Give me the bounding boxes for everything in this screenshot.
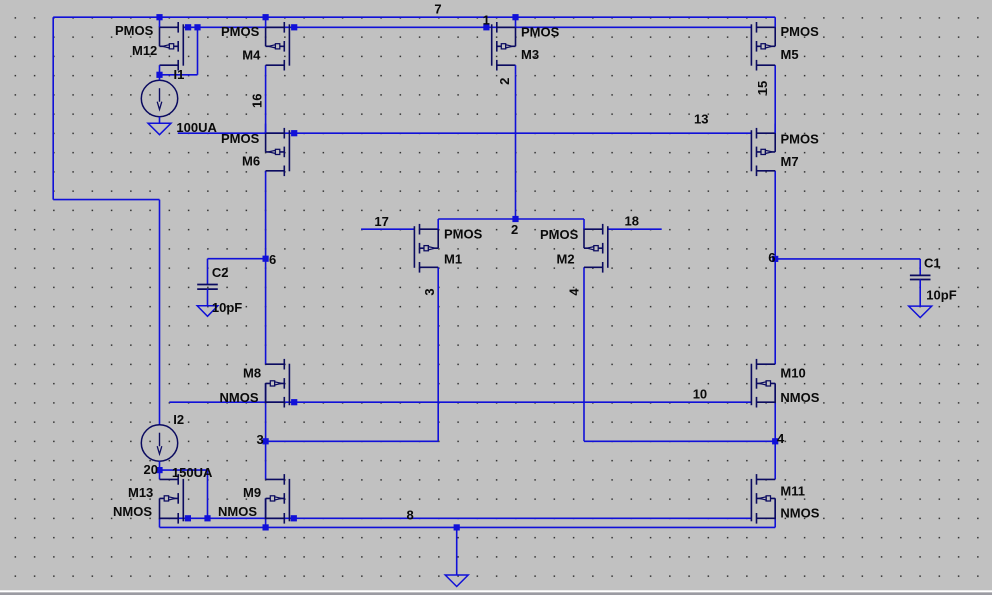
label PMOS for M3: [521, 24, 560, 39]
svg-text:17: 17: [374, 214, 388, 229]
capacitor C1: [910, 259, 931, 306]
node 2 junction: [512, 216, 518, 222]
wire left VDD loop horizontal: [53, 199, 159, 201]
wire node 16 vertical: [265, 65, 267, 133]
svg-text:100UA: 100UA: [176, 120, 217, 135]
svg-text:M11: M11: [780, 484, 805, 499]
label node 16 (rotated): [249, 93, 264, 107]
transistor M1 (PMOS input): [414, 219, 438, 273]
node 8 junction at M9: [263, 524, 269, 530]
label C2: [212, 265, 229, 280]
svg-text:M10: M10: [780, 365, 805, 380]
label PMOS for M2: [540, 227, 579, 242]
wire node 15 vertical: [774, 65, 776, 133]
label M5: [781, 47, 799, 62]
transistor M11 (NMOS): [751, 474, 775, 523]
svg-text:8: 8: [407, 507, 414, 522]
node 20 junction: [156, 467, 162, 473]
wire M13 diode gate drop: [207, 470, 209, 518]
svg-text:M9: M9: [243, 485, 261, 500]
svg-text:2: 2: [497, 78, 512, 85]
node 7 junction at M12: [156, 14, 162, 20]
svg-text:4: 4: [777, 431, 785, 446]
svg-text:I1: I1: [174, 67, 185, 82]
svg-text:15: 15: [755, 81, 770, 95]
label M3: [521, 47, 539, 62]
svg-text:6: 6: [768, 250, 775, 265]
wire M9 source stub: [265, 498, 267, 527]
label M9: [243, 485, 261, 500]
label node 6 right: [768, 250, 775, 265]
svg-text:PMOS: PMOS: [115, 23, 154, 38]
transistor M13 (NMOS diode-connected): [160, 474, 184, 523]
wire I2 feed vertical: [159, 200, 161, 425]
node 1 junction at M3 gate: [483, 24, 489, 30]
svg-text:PMOS: PMOS: [781, 24, 820, 39]
svg-text:PMOS: PMOS: [540, 227, 579, 242]
transistor M3 (PMOS): [492, 17, 516, 75]
transistor M4 (PMOS): [266, 17, 290, 70]
node 1 junction at M12 diode: [194, 24, 200, 30]
svg-text:150UA: 150UA: [172, 465, 213, 480]
label 10pF for C1: [926, 287, 956, 302]
label node 18: [625, 214, 639, 229]
node 6 junction right: [772, 256, 778, 262]
wire M2 drain vertical: [583, 267, 585, 441]
label node 3: [257, 432, 264, 447]
label M8: [243, 365, 261, 380]
label node 4 (rotated): [567, 288, 582, 296]
wire node 6 left horizontal (C2): [208, 258, 266, 260]
wire node 3 rail: [266, 440, 439, 442]
svg-text:6: 6: [269, 252, 276, 267]
label node 17: [374, 214, 388, 229]
wire M11 source stub: [774, 498, 776, 527]
wire node 13 rail: [178, 132, 752, 134]
svg-text:M8: M8: [243, 365, 261, 380]
label node 3 (rotated): [422, 288, 437, 295]
svg-text:M1: M1: [444, 252, 462, 267]
current source I1: [141, 75, 177, 123]
svg-text:NMOS: NMOS: [113, 504, 152, 519]
svg-text:PMOS: PMOS: [444, 226, 483, 241]
svg-text:C2: C2: [212, 265, 229, 280]
wire node 8 bottom rail: [160, 526, 776, 528]
wire node 1 gate rail: [183, 26, 752, 28]
label node 6 left: [269, 252, 276, 267]
svg-text:3: 3: [257, 432, 264, 447]
label NMOS for M13: [113, 504, 152, 519]
transistor M9 (NMOS): [266, 474, 290, 523]
node 8 junction at ground: [454, 524, 460, 530]
svg-text:M5: M5: [781, 47, 799, 62]
wire node 10 rail: [169, 401, 752, 403]
transistor M8 (NMOS): [266, 359, 290, 408]
svg-text:PMOS: PMOS: [781, 132, 820, 147]
ground under I1: [148, 123, 171, 135]
svg-text:PMOS: PMOS: [521, 24, 560, 39]
wire M1 drain vertical: [437, 267, 439, 441]
wire node 17 input: [361, 228, 414, 230]
label NMOS for M10: [780, 390, 819, 405]
svg-text:7: 7: [434, 1, 441, 16]
svg-text:PMOS: PMOS: [221, 24, 260, 39]
svg-text:18: 18: [625, 214, 639, 229]
label I2: [173, 412, 184, 427]
wire node 18 input: [608, 228, 662, 230]
wire node 4 rail: [584, 440, 775, 442]
svg-text:3: 3: [422, 288, 437, 295]
node 3 junction: [263, 438, 269, 444]
label M11: [780, 484, 805, 499]
svg-text:16: 16: [249, 93, 264, 107]
label NMOS for M9: [218, 504, 257, 519]
label M4: [242, 48, 261, 63]
transistor M2 (PMOS input): [584, 219, 608, 273]
svg-text:13: 13: [694, 111, 708, 126]
label node 8: [407, 507, 414, 522]
wire node 7 top rail: [53, 16, 775, 18]
svg-text:NMOS: NMOS: [780, 506, 819, 521]
transistor M12 (PMOS diode-connected): [160, 17, 184, 75]
svg-text:M3: M3: [521, 47, 539, 62]
wire M13 diode horizontal: [160, 469, 208, 471]
label PMOS for M4: [221, 24, 260, 39]
node 1 junction at M12 gate: [185, 24, 191, 30]
node junction M13 gate: [185, 515, 191, 521]
label M10: [780, 365, 805, 380]
label node 13: [694, 111, 708, 126]
node 7 junction at M3: [512, 14, 518, 20]
transistor M5 (PMOS): [751, 17, 775, 70]
capacitor C2: [197, 259, 218, 306]
svg-text:NMOS: NMOS: [220, 390, 259, 405]
label node 2 (rotated): [497, 78, 512, 85]
svg-text:NMOS: NMOS: [218, 504, 257, 519]
label 20: [144, 462, 158, 477]
svg-text:M12: M12: [132, 43, 157, 58]
window bottom border: [0, 590, 992, 595]
node junction M13 diode: [204, 515, 210, 521]
wire ground drop: [456, 527, 458, 575]
label node 2 at junction: [511, 222, 518, 237]
svg-text:NMOS: NMOS: [780, 390, 819, 405]
wire node 2 rail: [438, 218, 584, 220]
ground under C1: [909, 306, 932, 318]
label node 7: [434, 1, 441, 16]
label M13: [128, 485, 153, 500]
label PMOS for M6: [221, 131, 260, 146]
label PMOS for M12: [115, 23, 154, 38]
label node 15 (rotated): [755, 81, 770, 95]
label node 10: [693, 387, 707, 402]
wire M12 diode horizontal: [160, 74, 198, 76]
wire node 6 right horizontal (C1): [775, 258, 920, 260]
label 150UA: [172, 465, 213, 480]
label NMOS for M8: [220, 390, 259, 405]
wire M10 body-source vertical: [774, 383, 776, 441]
svg-text:20: 20: [144, 462, 158, 477]
wire M12 diode gate drop: [197, 27, 199, 75]
wire node 6 left vertical: [265, 171, 267, 364]
label I1: [174, 67, 185, 82]
label M2: [557, 252, 575, 267]
node 6 junction left: [263, 256, 269, 262]
wire M9 drain vertical: [265, 441, 267, 479]
svg-text:4: 4: [567, 288, 582, 296]
label M1: [444, 252, 462, 267]
label 100UA: [176, 120, 217, 135]
svg-text:C1: C1: [924, 256, 941, 271]
svg-text:PMOS: PMOS: [221, 131, 260, 146]
transistor M6 (PMOS): [266, 124, 290, 177]
label M6: [242, 154, 260, 169]
svg-text:M13: M13: [128, 485, 153, 500]
transistor M7 (PMOS): [751, 124, 775, 177]
node junction M9 gate: [291, 515, 297, 521]
wire M13 drain stub: [159, 470, 161, 479]
svg-text:I2: I2: [173, 412, 184, 427]
label 10pF for C2: [212, 300, 242, 315]
label node 4: [777, 431, 785, 446]
label M12: [132, 43, 157, 58]
label node 1: [483, 12, 490, 27]
node 7 junction at M4: [263, 14, 269, 20]
svg-text:M7: M7: [781, 154, 799, 169]
node 13 junction at M6 gate: [291, 130, 297, 136]
ground main (node 0): [445, 575, 468, 587]
svg-text:M6: M6: [242, 154, 260, 169]
node junction I1 top: [156, 72, 162, 78]
wire M8 body-source vertical: [265, 383, 267, 441]
svg-text:10pF: 10pF: [926, 287, 956, 302]
label PMOS for M7: [781, 132, 820, 147]
current source I2: [141, 425, 177, 470]
node 10 junction at M8 gate: [291, 399, 297, 405]
wire left VDD loop vertical: [52, 17, 54, 199]
label M7: [781, 154, 799, 169]
label C1: [924, 256, 941, 271]
svg-text:M4: M4: [242, 48, 261, 63]
label PMOS for M1: [444, 226, 483, 241]
label NMOS for M11: [780, 506, 819, 521]
svg-text:2: 2: [511, 222, 518, 237]
svg-text:10: 10: [693, 387, 707, 402]
wire node 2 vertical: [515, 75, 517, 219]
svg-text:1: 1: [483, 12, 490, 27]
transistor M10 (NMOS): [751, 359, 775, 408]
wire M11 drain vertical: [774, 441, 776, 479]
node 1 junction at M4 gate: [291, 24, 297, 30]
svg-text:10pF: 10pF: [212, 300, 242, 315]
ground under C2: [197, 306, 218, 317]
svg-text:M2: M2: [557, 252, 575, 267]
wire node 6 right vertical: [774, 171, 776, 364]
wire M13 source stub: [159, 518, 161, 527]
label PMOS for M5: [781, 24, 820, 39]
wire node gate rail M9-M11 (row 518): [160, 517, 752, 519]
node 4 junction: [772, 438, 778, 444]
wire M12 gate stub: [183, 26, 188, 28]
